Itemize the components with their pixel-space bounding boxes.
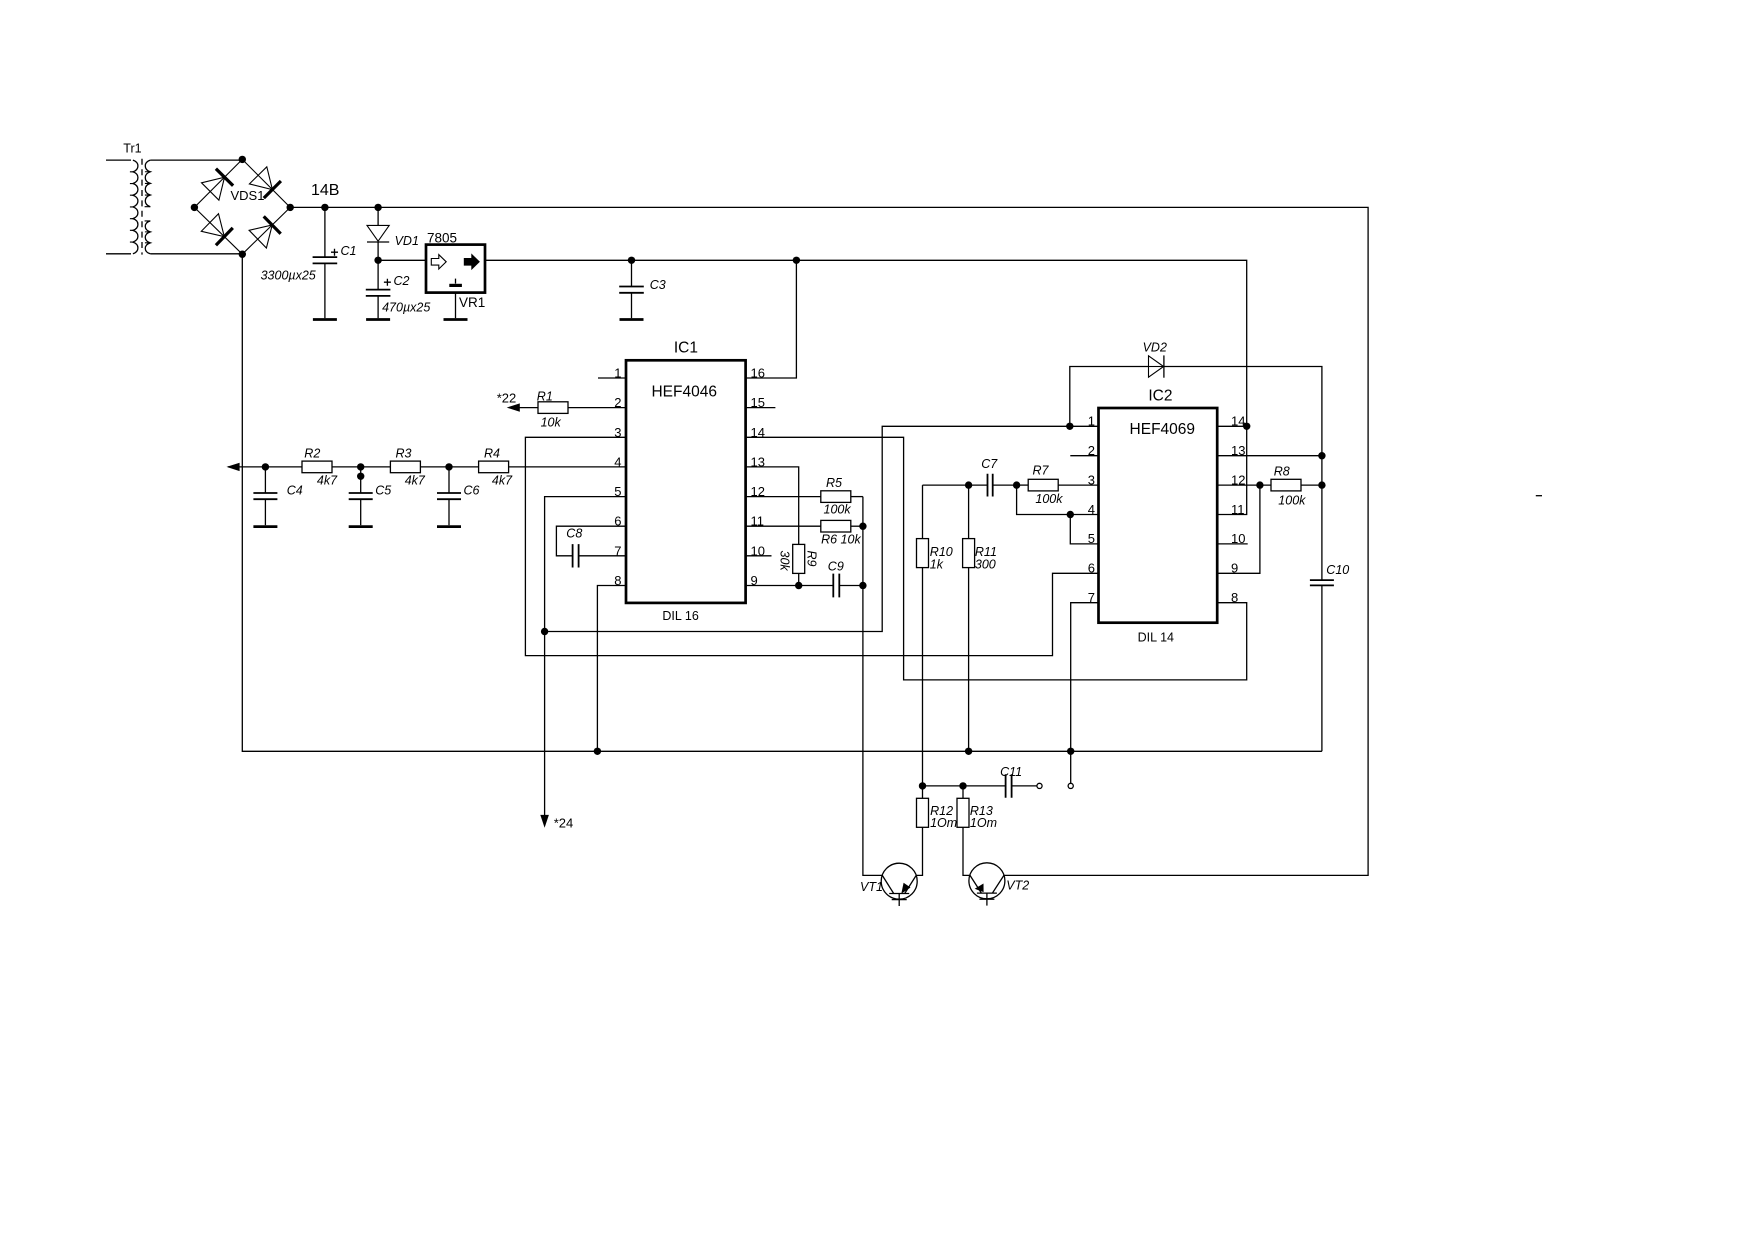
diode top-left arm [216, 169, 233, 186]
svg-text:6: 6 [1088, 561, 1095, 576]
capacitor C2 [366, 257, 431, 320]
svg-text:C9: C9 [828, 560, 844, 574]
node *22 arrow [497, 391, 538, 412]
svg-text:R7: R7 [1033, 464, 1050, 478]
svg-text:C5: C5 [375, 484, 391, 498]
svg-text:R9: R9 [805, 551, 819, 567]
svg-text:1Om: 1Om [970, 816, 997, 830]
wire IC2 pin 7 to ground rail and contact [1071, 603, 1099, 784]
wire IC1 pin 14 to IC2 pin 8 [746, 437, 1247, 680]
svg-text:100k: 100k [1035, 492, 1063, 506]
svg-text:*22: *22 [497, 391, 517, 406]
capacitor C9 [746, 560, 867, 598]
transistor VT2 [969, 863, 1029, 906]
wire IC1 pin5 net to IC2 pin 1 [545, 426, 1099, 631]
capacitor C8 between IC1 pins 6 and 7 [556, 526, 626, 567]
svg-text:4k7: 4k7 [405, 474, 426, 488]
resistor R7 [1013, 464, 1099, 507]
svg-text:C3: C3 [650, 278, 666, 292]
svg-text:R6 10k: R6 10k [821, 533, 861, 547]
svg-text:1: 1 [1088, 414, 1095, 429]
svg-text:C8: C8 [566, 527, 582, 541]
resistor R2 [302, 447, 338, 488]
svg-text:300: 300 [975, 558, 996, 572]
diode top-right arm [264, 181, 281, 198]
svg-text:4k7: 4k7 [492, 474, 513, 488]
svg-text:R4: R4 [484, 447, 500, 461]
svg-text:VR1: VR1 [459, 295, 485, 310]
node right [287, 204, 294, 211]
resistor R9 [778, 544, 819, 573]
svg-text:11: 11 [1231, 502, 1245, 517]
wire IC1 pin 3 to IC2 pin 6 [525, 437, 1098, 655]
svg-text:HEF4069: HEF4069 [1130, 421, 1195, 438]
diode VD2 [1066, 341, 1167, 430]
svg-text:1Om: 1Om [930, 816, 957, 830]
wire secondary to bridge [150, 159, 242, 161]
wire IC2 pin 2 stub [1070, 455, 1098, 457]
svg-text:C6: C6 [464, 484, 480, 498]
svg-text:30k: 30k [778, 551, 792, 572]
svg-text:1k: 1k [930, 558, 944, 572]
wire R1 to IC1 pin 2 [568, 407, 626, 409]
svg-text:C2: C2 [394, 274, 410, 288]
svg-text:Tr1: Tr1 [123, 142, 141, 156]
svg-text:16: 16 [751, 366, 765, 381]
svg-text:VDS1: VDS1 [231, 188, 265, 203]
wire R5/R6/C9 node down to VT1 [863, 497, 882, 876]
transformer Tr1 [106, 142, 150, 255]
svg-text:14B: 14B [311, 182, 339, 199]
wire pin4 chain [228, 466, 626, 468]
node stray dash [1536, 495, 1542, 497]
svg-text:IC2: IC2 [1148, 388, 1172, 405]
op IC1 HEF4046 [614, 340, 765, 624]
wire R7 left to IC2 pins 4 and 5 [1017, 485, 1099, 544]
node IC2 pin 14 junction [1217, 425, 1247, 427]
svg-text:C4: C4 [287, 484, 303, 498]
svg-text:10k: 10k [541, 416, 562, 430]
svg-text:R5: R5 [826, 476, 842, 490]
resistor R6 [746, 520, 867, 546]
svg-text:8: 8 [1231, 590, 1238, 605]
node left [191, 204, 198, 211]
node bottom [239, 251, 246, 258]
wire VD1 node to regulator input [378, 259, 426, 261]
capacitor C10 [1310, 563, 1349, 751]
svg-text:100k: 100k [1278, 494, 1306, 508]
svg-text:VT2: VT2 [1006, 879, 1029, 893]
node open contact right [1068, 783, 1073, 788]
resistor R11 [963, 481, 997, 755]
capacitor C4 [253, 463, 302, 526]
capacitor C7 [969, 457, 1017, 497]
voltage regulator VR1 7805 [426, 231, 485, 320]
svg-text:VD2: VD2 [1143, 341, 1167, 355]
svg-text:R2: R2 [304, 447, 320, 461]
svg-text:100k: 100k [824, 503, 852, 517]
wire IC2 pin 10 stub [1217, 543, 1248, 545]
wire +14V top rail, right rail, to VT2 emitter [290, 207, 1368, 875]
svg-text:4k7: 4k7 [317, 474, 338, 488]
resistor R13 [957, 786, 997, 876]
resistor R3 [390, 447, 426, 488]
svg-text:C11: C11 [1000, 765, 1022, 779]
svg-text:3300µx25: 3300µx25 [261, 269, 316, 283]
resistor R4 [479, 447, 514, 488]
svg-text:DIL 16: DIL 16 [662, 609, 698, 623]
diode bottom-left arm [216, 228, 233, 245]
op IC2 HEF4069 [1088, 388, 1246, 645]
svg-text:R3: R3 [396, 447, 412, 461]
svg-text:C7: C7 [981, 457, 998, 471]
capacitor C3 [619, 257, 666, 320]
svg-text:VD1: VD1 [395, 234, 419, 248]
node left arrow pin4 chain [227, 463, 240, 471]
bridge rectifier VDS1 [191, 156, 294, 258]
wire IC1 pin 5 to *24 electrode [545, 497, 626, 825]
capacitor C5 [349, 463, 392, 526]
svg-text:*24: *24 [554, 816, 574, 831]
wire IC1 pin 13 to R9 [746, 467, 799, 545]
svg-text:3: 3 [1088, 472, 1095, 487]
wire IC1 pin 1 stub [598, 377, 626, 379]
diode bottom-right arm [264, 216, 281, 233]
wire VD2 cathode to pin13/R8/C10 [1164, 367, 1322, 581]
resistor R1 [537, 390, 568, 430]
wire IC2 pin 13 to VD2 cathode line [1217, 455, 1322, 457]
svg-text:C10: C10 [1326, 563, 1349, 577]
wire +5V rail from regulator to IC2 pins 14/11 [485, 260, 1247, 514]
wire ground left rail and bottom rail [242, 254, 1322, 751]
capacitor C1 [261, 204, 357, 320]
svg-text:2: 2 [1088, 443, 1095, 458]
svg-text:7805: 7805 [427, 231, 457, 246]
resistor R10 [917, 485, 969, 798]
svg-text:R8: R8 [1274, 465, 1290, 479]
svg-text:HEF4046: HEF4046 [651, 383, 716, 400]
transistor VT1 [860, 863, 917, 906]
node *24 arrow [540, 815, 549, 828]
resistor R8 [1217, 465, 1325, 508]
svg-text:5: 5 [1088, 531, 1095, 546]
svg-text:C1: C1 [341, 244, 357, 258]
wire IC1 pin 8 to ground rail [597, 586, 626, 752]
wire +5V branch to IC1 pin 16 [746, 260, 797, 378]
capacitor C6 [437, 463, 480, 526]
diode VD1 [367, 204, 419, 290]
svg-text:4: 4 [1088, 502, 1095, 517]
node top [239, 156, 246, 163]
wire IC1 pin 15 stub [746, 407, 776, 409]
wire IC1 pin 10 stub [746, 555, 772, 557]
resistor R12 [916, 798, 957, 875]
node open contact left [1037, 783, 1042, 788]
wire R8 left to IC2 pin 9 [1217, 485, 1260, 573]
svg-text:VT1: VT1 [860, 880, 883, 894]
svg-text:DIL 14: DIL 14 [1138, 631, 1174, 645]
svg-text:470µx25: 470µx25 [382, 301, 430, 315]
resistor R5 [746, 476, 863, 517]
capacitor C11 [919, 765, 1042, 798]
svg-text:R1: R1 [537, 390, 553, 404]
svg-text:IC1: IC1 [674, 340, 698, 357]
